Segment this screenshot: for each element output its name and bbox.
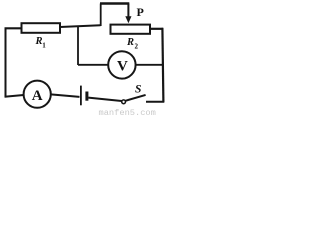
wire top horizontal <box>100 2 129 4</box>
svg-text:manfen5.com: manfen5.com <box>99 108 156 118</box>
switch S <box>122 95 146 104</box>
svg-text:2: 2 <box>135 43 139 51</box>
wire voltmeter left branch <box>78 26 109 65</box>
svg-text:S: S <box>135 84 141 96</box>
voltmeter U=V <box>108 51 135 78</box>
wire R1 to riser <box>60 25 101 27</box>
wire top-left horizontal to R1 <box>5 27 22 29</box>
rheostat R2 <box>111 25 151 34</box>
battery cell <box>81 86 87 106</box>
wire right vertical <box>162 28 163 103</box>
wire battery to switch <box>88 98 121 101</box>
svg-text:R: R <box>126 37 134 48</box>
ammeter A <box>24 81 51 108</box>
wire R2 to right vertical <box>150 28 163 30</box>
wire voltmeter right <box>135 64 162 66</box>
resistor R1 <box>22 23 61 33</box>
wire bottom-left to ammeter <box>5 95 24 97</box>
svg-text:P: P <box>137 5 144 19</box>
svg-text:A: A <box>32 88 43 104</box>
wire switch to right corner <box>146 101 164 103</box>
svg-text:1: 1 <box>42 42 46 50</box>
wire riser up <box>100 4 102 27</box>
slider arrow P onto R2 <box>125 4 131 24</box>
wire left vertical <box>5 28 7 98</box>
wire ammeter to battery <box>51 94 80 97</box>
svg-text:V: V <box>117 59 128 75</box>
